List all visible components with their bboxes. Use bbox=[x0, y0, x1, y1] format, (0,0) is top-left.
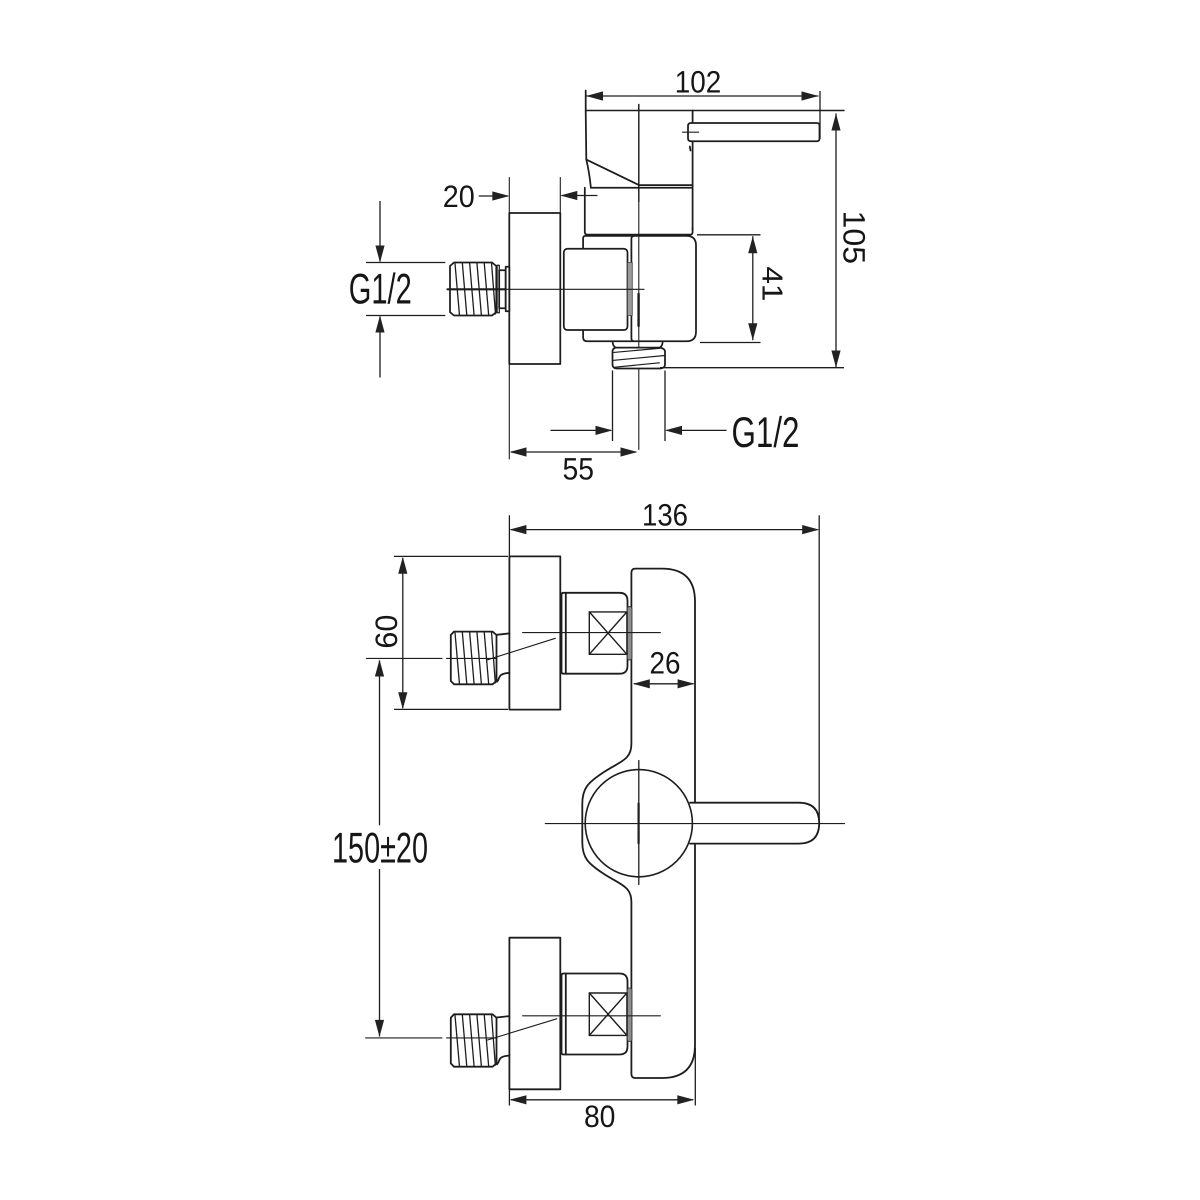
dim 55 line bbox=[511, 451, 636, 453]
lever base slant bbox=[586, 160, 639, 186]
dim 60 extensions bbox=[394, 555, 508, 557]
upper thread taper bbox=[497, 633, 510, 681]
dim 26 arrows bbox=[633, 679, 650, 688]
dim 20 leader right bbox=[562, 195, 598, 197]
phi arrows bbox=[375, 246, 384, 263]
dim 102 line bbox=[586, 95, 819, 97]
dim 41 line bbox=[752, 236, 754, 340]
G12 bottom dim left segment bbox=[551, 429, 612, 431]
svg-text:105: 105 bbox=[837, 211, 872, 264]
body left edge (slightly slanted) bbox=[585, 91, 588, 160]
dim 41 extension bottom bbox=[700, 342, 761, 344]
svg-text:102: 102 bbox=[675, 65, 722, 100]
phi extension top bbox=[366, 262, 445, 264]
hub vertical centerline bbox=[638, 761, 640, 885]
upper wall plate bbox=[509, 556, 560, 709]
lower seal strip gray bbox=[627, 988, 632, 1042]
upper X square bbox=[589, 612, 627, 654]
outlet neck bbox=[613, 343, 616, 348]
dim 150 line lower part bbox=[379, 869, 381, 1037]
phi dim line bottom bbox=[379, 317, 381, 378]
svg-text:26: 26 bbox=[650, 646, 681, 681]
upper block left edge bbox=[585, 188, 693, 235]
handle tick mark bbox=[683, 131, 699, 133]
body internal step line bbox=[631, 236, 633, 341]
svg-text:60: 60 bbox=[369, 615, 404, 649]
handle lever (rounded) bbox=[688, 123, 820, 141]
dim 80 arrows bbox=[509, 1095, 526, 1104]
dim 41 extension top bbox=[697, 234, 761, 236]
lever front view fill bbox=[690, 803, 819, 844]
G12 bottom arrows bbox=[596, 426, 613, 435]
plate extension line down (for 55 dim) bbox=[508, 364, 510, 459]
svg-text:150±20: 150±20 bbox=[332, 824, 428, 872]
svg-text:41: 41 bbox=[756, 266, 788, 301]
dim 136 line bbox=[511, 529, 818, 531]
texts of top drawing bbox=[443, 65, 872, 487]
nut extension lines down bbox=[612, 371, 614, 442]
upper block right edge (gap behind handle) bbox=[692, 111, 694, 124]
lower thread taper bbox=[497, 1016, 510, 1064]
dim 136 arrows bbox=[509, 525, 526, 534]
extension line from outlet bottom to 105 bbox=[660, 367, 844, 369]
svg-text:20: 20 bbox=[443, 179, 475, 214]
lower thread bbox=[451, 1014, 497, 1066]
svg-text:136: 136 bbox=[642, 497, 688, 532]
svg-text:G1/2: G1/2 bbox=[349, 266, 412, 314]
upper block top edge right bbox=[639, 184, 693, 186]
wall plate (side view) bbox=[509, 213, 560, 364]
seal strip (gray) bbox=[628, 263, 633, 316]
dim 60 arrows bbox=[398, 557, 407, 574]
lever hidden edge dark segment bbox=[637, 804, 639, 844]
inlet collar rings bbox=[497, 265, 499, 312]
vertical centerline of valve axis bbox=[638, 105, 640, 202]
phi extension bottom bbox=[366, 315, 445, 317]
texts of bottom drawing bbox=[369, 497, 688, 1134]
lower wall plate bbox=[509, 938, 560, 1090]
upper assembly centerlines bbox=[366, 633, 660, 660]
handle hub circle bbox=[585, 770, 692, 877]
top edge of body / extension line to 105 dim bbox=[586, 110, 844, 112]
dim 60 line bbox=[402, 558, 404, 708]
dim 55 arrows bbox=[510, 447, 527, 456]
lower assembly centerlines bbox=[366, 1016, 661, 1040]
body vertical bar with bulge bbox=[582, 569, 695, 1078]
outlet nut with thread bbox=[613, 348, 666, 369]
lower X square bbox=[589, 993, 627, 1035]
dim 105 arrows bbox=[831, 114, 840, 131]
dim 150 line upper part bbox=[379, 661, 381, 826]
upper union nut bbox=[562, 593, 628, 674]
small mark under handle bbox=[689, 147, 692, 151]
svg-text:55: 55 bbox=[563, 452, 595, 487]
lower union nut bbox=[562, 974, 628, 1055]
upper seal strip gray bbox=[627, 607, 632, 661]
dim 102 arrows bbox=[586, 91, 603, 100]
cartridge cover bbox=[564, 249, 628, 330]
dim 20 arrows bbox=[492, 191, 509, 200]
dim 80 extensions bbox=[508, 1089, 510, 1105]
lever base front curve bbox=[586, 160, 591, 188]
dim 80 line bbox=[511, 1099, 693, 1101]
outlet channel hidden edge (dark segment) bbox=[637, 294, 639, 326]
dim 136 extensions bbox=[508, 515, 510, 556]
G12 bottom dim right segment bbox=[667, 429, 727, 431]
arrowheads for top drawing bbox=[375, 91, 840, 456]
dim 102 right extension bbox=[819, 91, 821, 139]
dim 150 arrows bbox=[375, 660, 384, 677]
main body block bbox=[583, 236, 696, 341]
upper thread bbox=[451, 632, 497, 685]
inlet centerline bbox=[448, 288, 506, 290]
lever front view outline bbox=[690, 803, 819, 844]
dim 20 leader left bbox=[479, 195, 508, 197]
inlet thread bbox=[450, 263, 496, 316]
hub horizontal centerline bbox=[545, 823, 844, 825]
dim 41 arrows bbox=[748, 236, 757, 253]
plate extension lines up (for 20 dim) bbox=[508, 178, 510, 214]
upper block top edge left bbox=[591, 187, 693, 189]
dim 26 line bbox=[634, 683, 694, 685]
dim 105 line bbox=[835, 114, 837, 368]
arrowheads bottom drawing bbox=[375, 525, 819, 1104]
svg-text:G1/2: G1/2 bbox=[732, 409, 800, 457]
svg-text:80: 80 bbox=[584, 1099, 616, 1134]
phi dim line top bbox=[379, 201, 381, 262]
